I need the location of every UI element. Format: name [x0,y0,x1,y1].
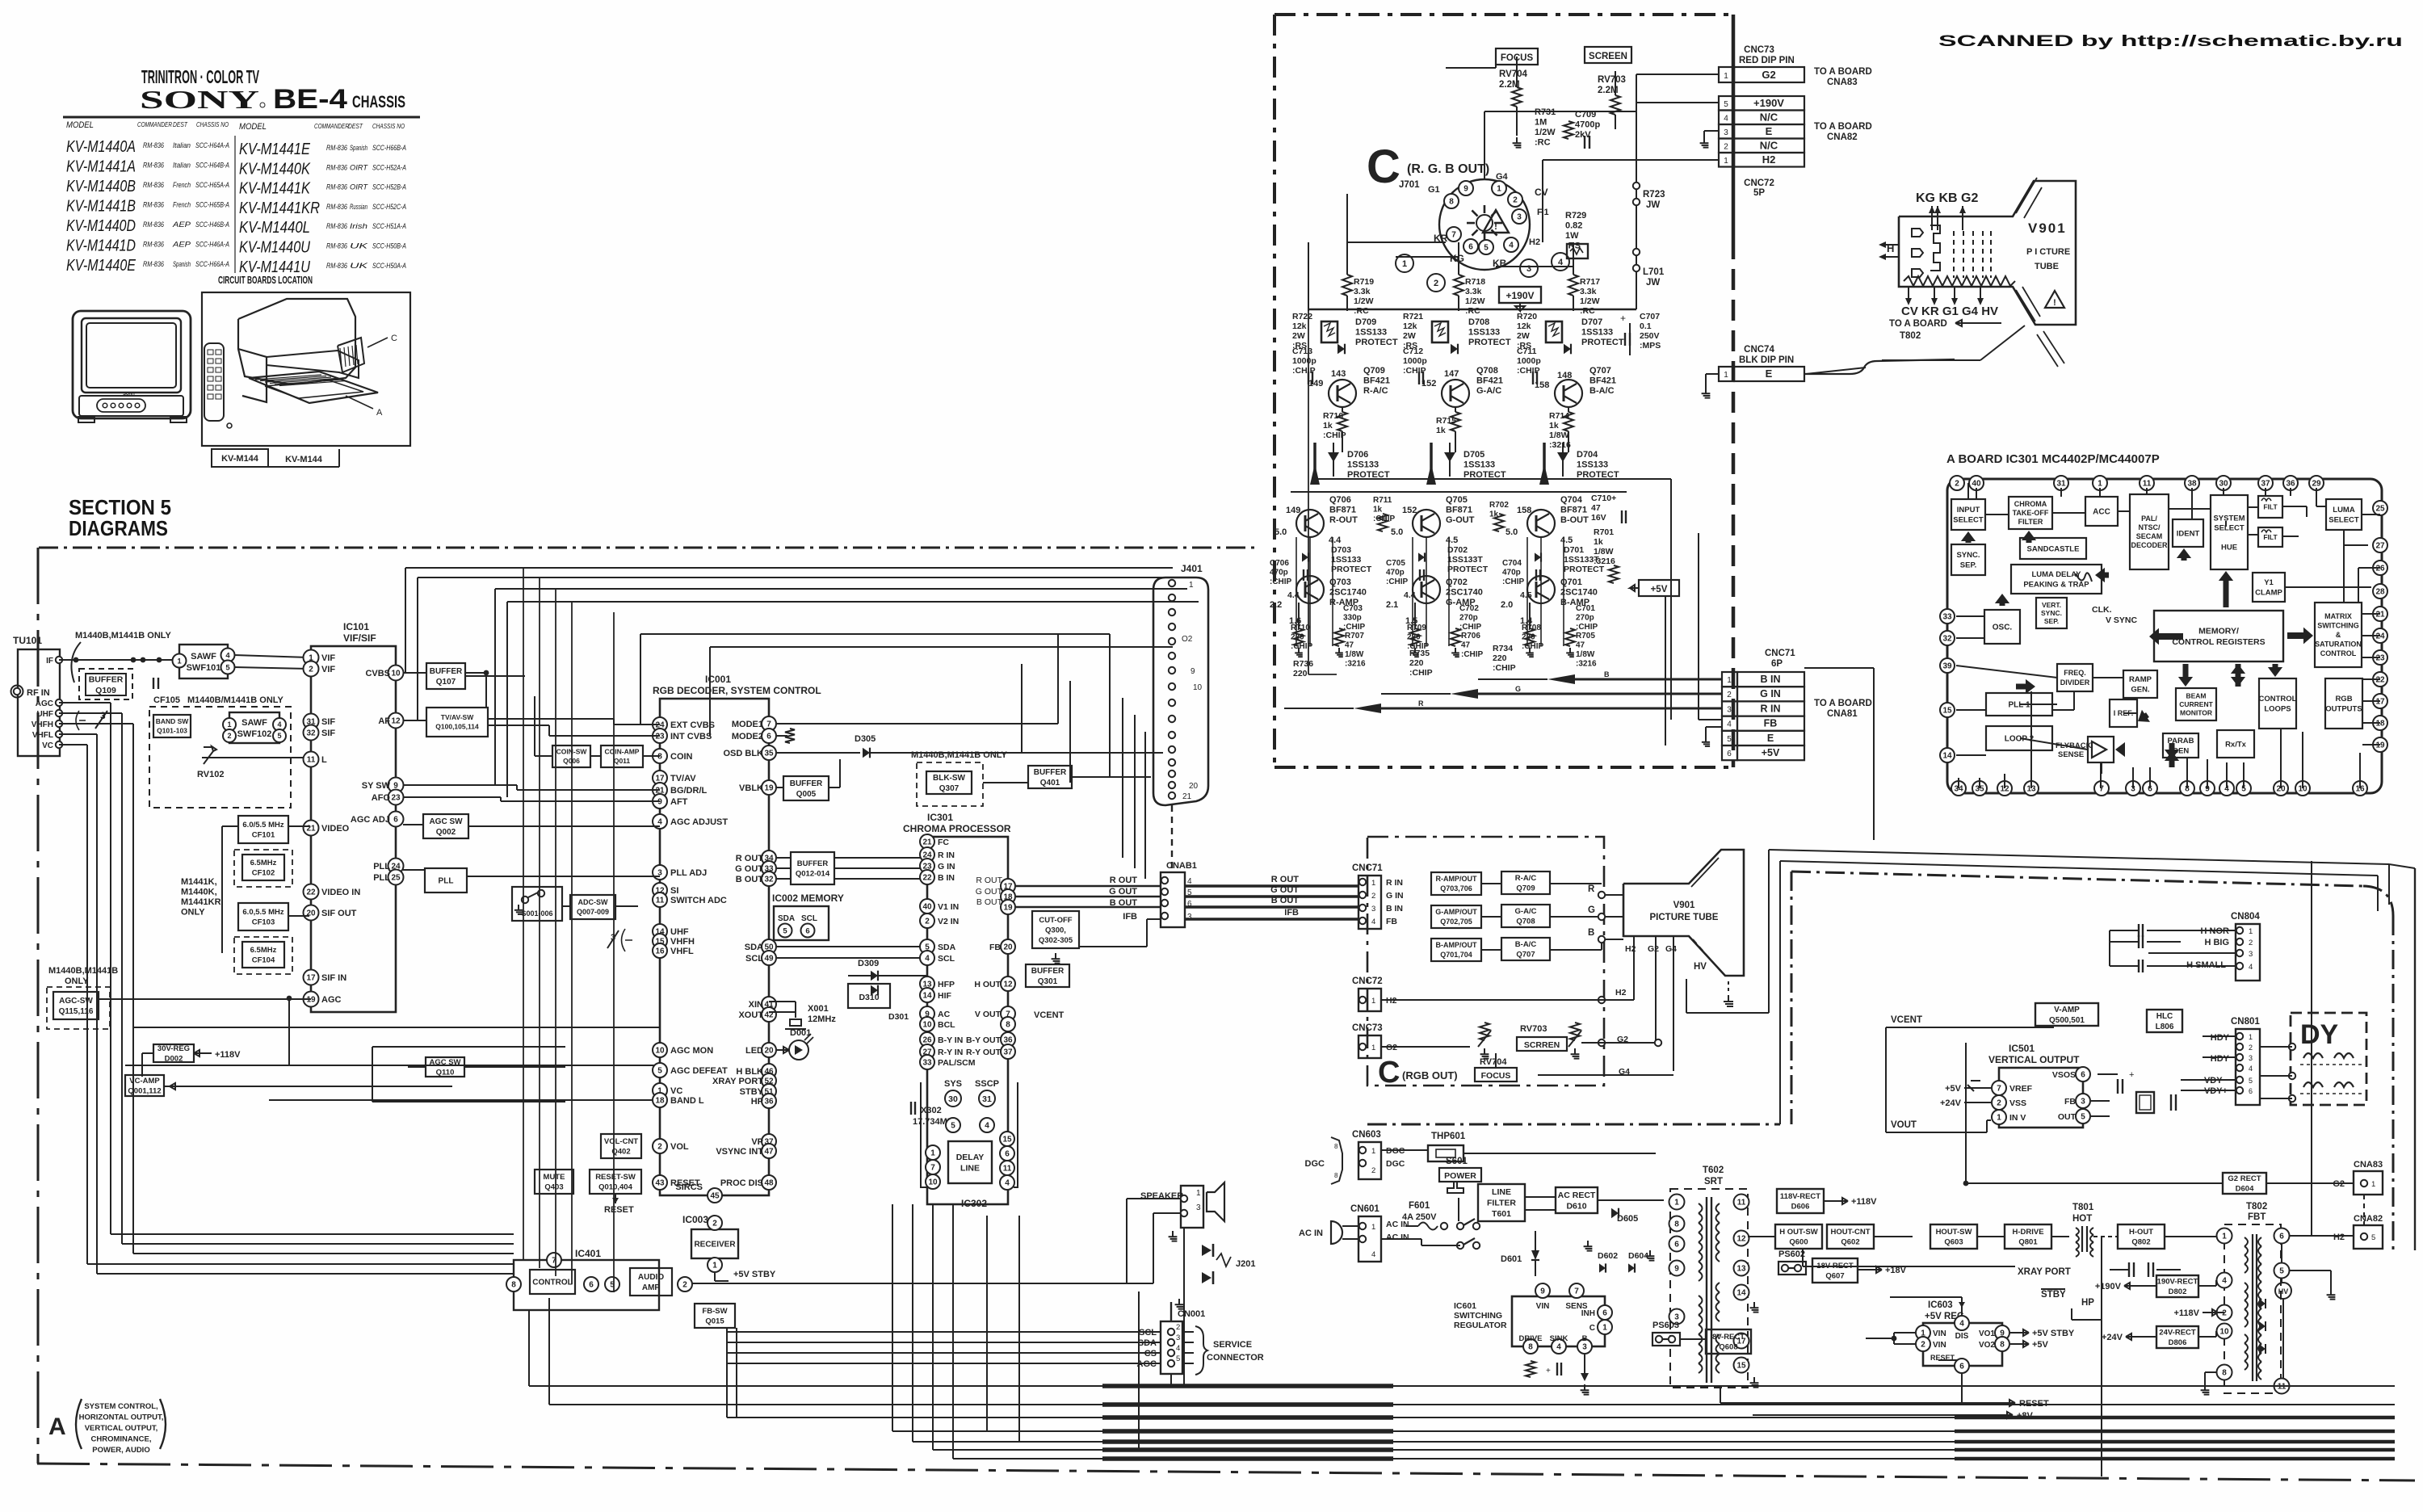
svg-text:6: 6 [2081,1071,2085,1080]
svg-text:R OUT: R OUT [736,854,764,863]
svg-text:CONTROL: CONTROL [2320,649,2357,657]
svg-text:PS603: PS603 [1652,1321,1679,1330]
svg-text:1SS133: 1SS133 [1355,328,1387,338]
svg-text:R720: R720 [1517,312,1537,321]
svg-text:IC002 MEMORY: IC002 MEMORY [772,892,844,904]
svg-text:C706: C706 [1270,559,1289,568]
svg-text:French: French [173,201,191,209]
svg-text:RAMP: RAMP [2129,675,2152,684]
svg-text:6: 6 [1674,1241,1679,1249]
svg-text:+5V: +5V [1762,747,1780,758]
svg-text:1SS133T: 1SS133T [1447,555,1483,565]
svg-text:SDA: SDA [938,943,956,952]
svg-text:7: 7 [766,720,771,729]
svg-text:2SC1740: 2SC1740 [1329,588,1367,598]
svg-text:RM-836: RM-836 [326,163,347,171]
svg-text:BCL: BCL [938,1020,955,1030]
svg-text:KV-M144: KV-M144 [285,455,323,464]
svg-text:AGC MON: AGC MON [670,1046,713,1056]
svg-text:CONTROL: CONTROL [532,1279,572,1287]
svg-text:G: G [1588,905,1595,915]
svg-text:C: C [391,334,397,343]
svg-text:+24V: +24V [1940,1098,1962,1108]
svg-text:R717: R717 [1580,277,1600,287]
svg-text:CN601: CN601 [1350,1204,1379,1214]
svg-text:30V-REG: 30V-REG [157,1044,190,1053]
svg-text:C711: C711 [1517,346,1537,356]
svg-text:CONNECTOR: CONNECTOR [1207,1353,1264,1363]
svg-text:1M: 1M [1535,118,1547,128]
svg-text:6.5MHz: 6.5MHz [250,946,277,955]
svg-text:B: B [1582,1334,1588,1343]
svg-text:CONTROL: CONTROL [2259,695,2297,703]
svg-text:TO A BOARD: TO A BOARD [1814,699,1872,708]
svg-text:143: 143 [1331,369,1346,379]
svg-text:B-AMP/OUT: B-AMP/OUT [1436,941,1477,949]
svg-text:KV-M1440E: KV-M1440E [66,257,136,275]
svg-text:PROC DIS: PROC DIS [720,1178,763,1188]
svg-text:R719: R719 [1354,277,1374,287]
svg-text:KV-M1441E: KV-M1441E [239,141,311,158]
svg-text:Q702,705: Q702,705 [1440,918,1472,926]
svg-text:T601: T601 [1492,1209,1511,1219]
svg-text:1: 1 [1371,879,1375,888]
svg-text:470p: 470p [1502,569,1521,577]
svg-text:Y1: Y1 [2264,578,2274,587]
svg-text:VC-AMP: VC-AMP [129,1077,160,1086]
svg-text:D709: D709 [1355,317,1376,327]
svg-text:CN001: CN001 [1178,1309,1205,1319]
svg-text:IC302: IC302 [961,1198,987,1209]
svg-text:1: 1 [227,720,231,729]
svg-text:1SS133: 1SS133 [1331,555,1362,565]
svg-text:KV-M1441K: KV-M1441K [239,180,311,198]
svg-text:31: 31 [982,1094,992,1104]
svg-text::CHIP: :CHIP [1343,623,1366,632]
svg-text:VP: VP [751,1137,763,1147]
svg-text:COMMANDER: COMMANDER [314,123,349,130]
svg-text:9: 9 [1463,185,1468,194]
svg-text:DIVIDER: DIVIDER [2060,678,2090,687]
svg-text:G-A/C: G-A/C [1476,386,1501,396]
svg-text:12k: 12k [1517,321,1531,331]
svg-text:S601: S601 [1446,1157,1468,1166]
svg-text:JW: JW [1646,278,1660,288]
svg-text:250V: 250V [1640,331,1660,341]
svg-text:V SYNC: V SYNC [2106,615,2138,625]
svg-text:47: 47 [764,1148,774,1157]
svg-text:5: 5 [1724,100,1728,109]
svg-text:25: 25 [2375,505,2385,514]
svg-text:V-AMP: V-AMP [2054,1006,2080,1014]
svg-text:SWITCHING: SWITCHING [2317,622,2359,630]
svg-text:CN801: CN801 [2231,1017,2260,1027]
svg-text:35: 35 [764,750,774,758]
svg-text:11: 11 [1003,1165,1012,1174]
svg-text:CLAMP: CLAMP [2255,589,2282,598]
svg-text:1: 1 [930,1149,935,1158]
svg-text:4.4: 4.4 [1329,535,1342,545]
svg-text:SIRCS: SIRCS [675,1182,703,1192]
svg-text:Q110: Q110 [436,1069,455,1077]
svg-text:B-Y IN: B-Y IN [938,1035,963,1045]
svg-text:TO A BOARD: TO A BOARD [1814,67,1872,77]
svg-text:2: 2 [1371,1166,1375,1175]
svg-text:R: R [1588,884,1595,894]
svg-text:SCC-H46A-A: SCC-H46A-A [195,241,229,249]
svg-text:15: 15 [1736,1362,1746,1371]
svg-text:!: ! [2053,298,2056,308]
svg-text:V901: V901 [1673,901,1695,910]
svg-text:BUFFER: BUFFER [790,779,823,788]
svg-text:1/2W: 1/2W [1580,296,1600,306]
svg-text:VO1: VO1 [1979,1329,1995,1338]
svg-text:!: ! [1494,220,1497,232]
svg-text:R-A/C: R-A/C [1515,874,1537,883]
svg-text:RM-836: RM-836 [143,141,164,149]
svg-text:KG: KG [1450,253,1464,264]
svg-text:RM-836: RM-836 [143,181,164,189]
svg-text:SECAM: SECAM [2136,532,2163,540]
svg-text:INT CVBS: INT CVBS [670,732,712,741]
svg-text:5P: 5P [1753,188,1765,198]
svg-text:D806: D806 [2169,1338,2187,1347]
svg-text:BUFFER: BUFFER [1031,967,1065,976]
svg-text:+118V: +118V [215,1050,241,1060]
svg-text:D605: D605 [1617,1214,1638,1224]
svg-text:32: 32 [306,729,316,738]
svg-text:T602: T602 [1703,1165,1724,1175]
svg-text:G-A/C: G-A/C [1515,907,1537,916]
svg-text:SWITCH ADC: SWITCH ADC [670,896,727,905]
svg-text:3: 3 [1176,1333,1180,1342]
svg-text:OUTPUTS: OUTPUTS [2325,705,2362,714]
svg-text:CF103: CF103 [252,918,275,927]
svg-text:Q709: Q709 [1516,884,1535,893]
svg-text:CHROMINANCE,: CHROMINANCE, [91,1435,152,1444]
svg-text:1SS133: 1SS133 [1577,460,1608,470]
svg-text:AEP: AEP [172,220,191,229]
svg-text:1: 1 [2371,1180,2375,1189]
svg-text::3216: :3216 [1576,660,1597,669]
svg-text:23: 23 [391,794,401,803]
svg-text:AGC ADJUST: AGC ADJUST [670,817,728,827]
svg-text:AGC: AGC [36,699,53,708]
svg-text:1: 1 [1497,185,1501,194]
svg-text:KV-M1441A: KV-M1441A [66,158,136,176]
svg-text:PROTECT: PROTECT [1447,565,1489,574]
svg-text:H-OUT: H-OUT [2129,1228,2153,1237]
svg-text:G4: G4 [1665,944,1677,954]
svg-text:PAL/SCM: PAL/SCM [938,1058,976,1068]
svg-text:7: 7 [1451,231,1456,240]
svg-text:R723: R723 [1643,190,1665,199]
svg-text:2: 2 [2222,1309,2227,1318]
svg-text:4: 4 [2249,1065,2253,1073]
svg-text:SCC-H65B-A: SCC-H65B-A [195,201,229,209]
svg-text:3: 3 [1526,264,1531,274]
svg-text:CN804: CN804 [2231,912,2260,922]
svg-text:CHASSIS NO: CHASSIS NO [372,123,405,130]
svg-text:N/C: N/C [1760,111,1778,124]
svg-text:FB: FB [989,943,1001,952]
svg-text:A: A [376,408,383,418]
svg-text:2: 2 [227,732,231,740]
svg-text:2: 2 [712,1220,717,1228]
svg-text:SELECT: SELECT [2329,516,2359,525]
svg-text:CLK.: CLK. [2092,605,2112,615]
svg-text:SCANNED by http://schematic.b: SCANNED by http://schematic.by.ru [1938,33,2403,50]
svg-text:5: 5 [2081,1113,2085,1122]
svg-text:5.0: 5.0 [1274,527,1287,537]
svg-text:SINK: SINK [1550,1334,1568,1343]
svg-text:UHF: UHF [670,927,689,937]
svg-text:IC301: IC301 [927,812,953,823]
svg-text:B OUT: B OUT [736,875,764,884]
svg-text:1W: 1W [1565,231,1579,241]
svg-text::CHIP: :CHIP [1386,577,1409,586]
svg-text:D701: D701 [1564,545,1584,555]
svg-text:1k: 1k [1436,426,1446,435]
svg-text:AC RECT: AC RECT [1558,1191,1596,1200]
svg-text:DECODER: DECODER [2131,541,2168,549]
svg-text:6: 6 [1602,1309,1607,1318]
svg-text:Q301: Q301 [1038,977,1058,986]
svg-text:AMP: AMP [642,1283,661,1292]
svg-text:AF: AF [378,716,390,726]
svg-text:5: 5 [2279,1267,2284,1276]
svg-text:DY: DY [2300,1019,2339,1050]
svg-text:KV-M1440A: KV-M1440A [66,138,136,156]
svg-text:1: 1 [1371,997,1375,1006]
svg-text:1/8W: 1/8W [1549,430,1569,440]
svg-text:LINE: LINE [1492,1187,1511,1197]
svg-text:Q100,105,114: Q100,105,114 [435,723,479,731]
svg-text:XRAY PORT: XRAY PORT [712,1077,763,1086]
svg-text:MODEL: MODEL [66,120,94,130]
svg-text:2SC1740: 2SC1740 [1560,588,1598,598]
svg-text:23: 23 [655,733,665,741]
svg-text:PROTECT: PROTECT [1581,338,1624,347]
svg-text:VOUT: VOUT [1891,1120,1917,1130]
svg-text:VIN: VIN [1933,1329,1946,1338]
svg-text:J401: J401 [1181,563,1203,574]
svg-text:5: 5 [783,926,787,935]
svg-text:N/C: N/C [1760,140,1778,152]
svg-text:2: 2 [1371,892,1375,901]
svg-text:R707: R707 [1345,632,1364,640]
svg-text:BF871: BF871 [1560,506,1587,515]
svg-text:Q705: Q705 [1446,495,1468,505]
svg-text:D002: D002 [165,1055,183,1064]
svg-text:+5V: +5V [2032,1340,2049,1350]
svg-text:RM-836: RM-836 [143,220,164,229]
svg-text:Spanish: Spanish [173,260,191,268]
svg-text:10: 10 [391,670,401,678]
svg-text:FILTER: FILTER [2018,518,2043,526]
svg-text:L806: L806 [2156,1023,2174,1031]
svg-text:J201: J201 [1236,1259,1255,1269]
svg-text:C701: C701 [1576,604,1595,613]
svg-text:KG KB G2: KG KB G2 [1916,191,1978,205]
svg-text::RC: :RC [1465,306,1480,316]
svg-text:148: 148 [1557,371,1572,380]
svg-text:T801: T801 [2072,1203,2094,1212]
svg-text:Q707: Q707 [1516,951,1535,960]
svg-text::MPS: :MPS [1640,341,1661,351]
svg-text:10: 10 [928,1178,938,1187]
svg-text:RV703: RV703 [1598,75,1626,85]
svg-text:D706: D706 [1347,450,1368,460]
svg-text::RC: :RC [1580,306,1595,316]
svg-text:Q703,706: Q703,706 [1440,884,1472,892]
svg-text:R705: R705 [1576,632,1595,640]
svg-text:4: 4 [1371,1250,1375,1259]
svg-text:27: 27 [2375,542,2385,551]
svg-text:G OUT: G OUT [1109,887,1137,897]
svg-text:IC101: IC101 [343,621,369,632]
svg-text:H OUT-SW: H OUT-SW [1779,1228,1818,1237]
svg-text::3216: :3216 [1549,440,1571,450]
svg-text:A BOARD IC301 MC4402P/MC4400: A BOARD IC301 MC4402P/MC44007P [1946,452,2160,466]
svg-text:FREQ.: FREQ. [2064,669,2086,677]
svg-text:R OUT: R OUT [976,876,1002,885]
svg-text:(RGB OUT): (RGB OUT) [1402,1069,1458,1081]
svg-text:24: 24 [2375,632,2385,641]
svg-text:LED: LED [745,1046,763,1056]
svg-text:330p: 330p [1343,614,1362,623]
svg-text:D707: D707 [1581,317,1602,327]
svg-text:CNA83: CNA83 [1827,78,1858,87]
svg-text:+5V: +5V [1945,1084,1962,1094]
svg-text:SCL: SCL [801,914,817,923]
svg-text:8: 8 [2222,1369,2227,1378]
svg-text:VBLK: VBLK [739,783,763,793]
svg-text:HV: HV [2278,1287,2289,1296]
svg-text:CVBS: CVBS [365,669,390,678]
svg-text:RV703: RV703 [1520,1024,1547,1034]
svg-text:M1440K,: M1440K, [181,888,217,897]
svg-text:2W: 2W [1292,331,1305,341]
svg-text:L701: L701 [1643,267,1665,277]
svg-text:2: 2 [1921,1341,1925,1350]
svg-text:ADC-SW: ADC-SW [578,898,608,906]
svg-text:VERTICAL OUTPUT,: VERTICAL OUTPUT, [85,1424,158,1433]
svg-text:PROTECT: PROTECT [1355,338,1398,347]
svg-text:10: 10 [655,1047,665,1056]
svg-text:3.3k: 3.3k [1354,287,1371,296]
svg-text:VSYNC INT: VSYNC INT [716,1147,763,1157]
svg-text:DELAY: DELAY [956,1153,985,1162]
svg-text:1: 1 [2098,480,2102,489]
svg-text:G2 RECT: G2 RECT [2228,1174,2261,1183]
svg-text:2: 2 [1955,480,1959,489]
svg-text:10: 10 [1193,683,1203,692]
svg-text:118V-RECT: 118V-RECT [1780,1192,1820,1201]
svg-text:ACC: ACC [2093,508,2110,517]
svg-text:5: 5 [277,732,281,740]
svg-text:H-DRIVE: H-DRIVE [2012,1228,2043,1237]
svg-text:PEAKING & TRAP: PEAKING & TRAP [2023,581,2089,590]
svg-text:4: 4 [1176,1344,1180,1353]
svg-text:6: 6 [2279,1233,2284,1241]
svg-text:3: 3 [1371,905,1375,913]
svg-text::CHIP: :CHIP [1461,650,1484,659]
svg-text:IC601: IC601 [1454,1301,1476,1311]
svg-text:SCC-H52C-A: SCC-H52C-A [372,203,406,211]
svg-text:3: 3 [1517,213,1522,222]
svg-text:C: C [1367,141,1400,193]
svg-text:R706: R706 [1461,632,1480,640]
svg-text:32: 32 [764,876,774,884]
svg-text:26: 26 [2375,565,2385,573]
svg-text:1000p: 1000p [1517,356,1541,366]
svg-text:POWER, AUDIO: POWER, AUDIO [92,1446,149,1455]
svg-text:1SS133: 1SS133 [1347,460,1379,470]
svg-text:220: 220 [1293,669,1308,678]
svg-text:2: 2 [1997,1099,2001,1108]
svg-text:1: 1 [1371,1147,1375,1156]
svg-text:18: 18 [2375,720,2385,729]
svg-text:DGC: DGC [1305,1159,1325,1169]
svg-text:1: 1 [1371,1044,1375,1052]
svg-text:14: 14 [1942,752,1952,761]
svg-text:SDA: SDA [745,943,763,952]
svg-text:C704: C704 [1502,559,1522,568]
svg-text:11: 11 [2143,480,2152,489]
svg-text:R701: R701 [1594,527,1614,537]
svg-text:1/2W: 1/2W [1535,128,1556,137]
svg-text:Q005: Q005 [796,790,817,799]
svg-text:11: 11 [2278,1383,2287,1392]
svg-text:KV-M1440U: KV-M1440U [239,239,310,257]
svg-text:H BIG: H BIG [2204,938,2229,947]
svg-text:TV/AV: TV/AV [670,774,696,783]
svg-text:C: C [1378,1056,1400,1090]
svg-text:HOUT-CNT: HOUT-CNT [1830,1228,1870,1237]
svg-text:17: 17 [2375,698,2385,707]
svg-text:2: 2 [1176,1323,1180,1332]
svg-text:+: + [1620,313,1626,324]
svg-text:VSOS: VSOS [2052,1070,2076,1080]
svg-text:D301: D301 [888,1012,909,1022]
svg-text:147: 147 [1444,369,1459,379]
svg-text:33: 33 [922,1059,932,1068]
svg-text:M1440B,M1441B ONLY: M1440B,M1441B ONLY [75,631,171,640]
svg-text:RM-836: RM-836 [326,203,347,211]
svg-text:G OUT: G OUT [1270,885,1299,895]
svg-text:V OUT: V OUT [975,1010,1002,1019]
svg-text:BEAM: BEAM [2186,691,2206,699]
svg-text:4A 250V: 4A 250V [1402,1212,1437,1222]
svg-text:DGC: DGC [1386,1159,1405,1169]
svg-text:H2: H2 [1762,153,1776,166]
svg-text:+118V: +118V [2173,1308,2199,1318]
svg-text:2: 2 [1434,279,1438,288]
svg-text:LUMA DELAY: LUMA DELAY [2031,570,2081,579]
svg-text:CNAB1: CNAB1 [1166,861,1197,871]
svg-text:Q107: Q107 [436,678,456,687]
svg-text:KV-M1440D: KV-M1440D [66,217,136,235]
svg-text:47: 47 [1576,641,1585,650]
svg-text:Q603: Q603 [1944,1238,1963,1247]
svg-text:RED DIP PIN: RED DIP PIN [1739,56,1795,65]
svg-text:BAND L: BAND L [670,1096,704,1106]
svg-text:SYSTEM CONTROL,: SYSTEM CONTROL, [84,1402,157,1411]
svg-text:1k: 1k [1594,537,1603,547]
svg-text:IN V: IN V [2009,1113,2026,1123]
svg-text:SELECT: SELECT [1953,516,1984,525]
